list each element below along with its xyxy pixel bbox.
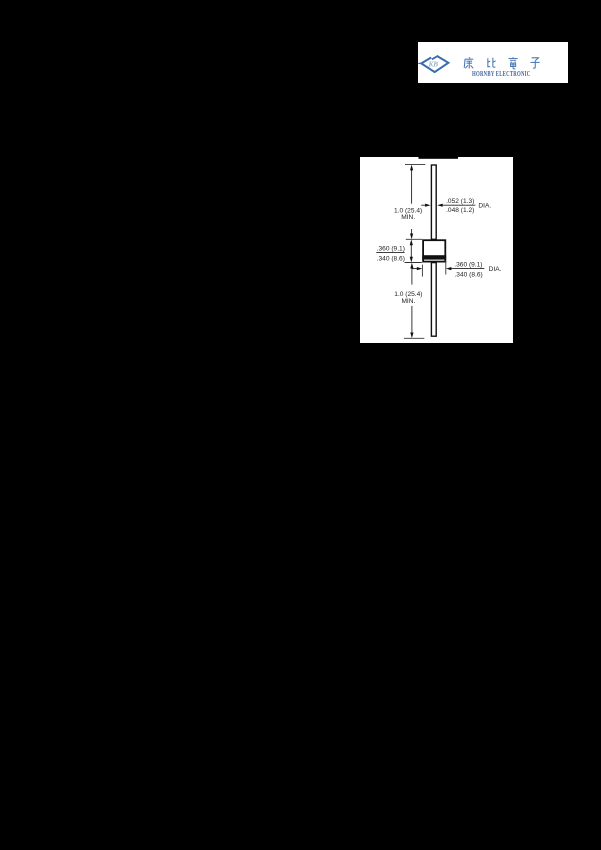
diode body	[423, 240, 445, 261]
package drawing panel (white box)	[360, 157, 513, 343]
logo panel (white box top right)	[418, 42, 569, 83]
svg-text:DIA.: DIA.	[478, 202, 491, 209]
svg-text:.360 (9.1): .360 (9.1)	[377, 245, 405, 252]
extension line at lead bottom	[404, 337, 424, 339]
svg-text:MIN.: MIN.	[401, 297, 415, 304]
svg-text:.052 (1.3): .052 (1.3)	[446, 198, 474, 205]
body diameter arrows	[412, 267, 485, 270]
black bar at panel top	[419, 157, 459, 159]
lead upper segment	[431, 165, 436, 239]
svg-text:KB: KB	[427, 61, 438, 69]
extension line at lead top	[405, 163, 425, 165]
lead diameter arrows	[421, 203, 475, 206]
svg-text:.048 (1.2): .048 (1.2)	[446, 206, 474, 213]
extension lines below body	[421, 264, 423, 276]
hanzi zi	[530, 58, 539, 68]
upper dimension line 1.0 MIN	[410, 164, 413, 239]
logo diamond notch stroke	[431, 56, 437, 60]
extension line body bottom	[405, 261, 422, 263]
cathode band	[422, 255, 446, 259]
svg-text:MIN.: MIN.	[401, 214, 415, 221]
svg-text:.340 (8.6): .340 (8.6)	[377, 255, 405, 262]
hanzi dian	[508, 57, 517, 69]
body height dimension line	[410, 239, 413, 262]
logo left dash	[418, 62, 421, 64]
logo diamond outline	[421, 56, 448, 72]
svg-text:HORNBY ELECTRONIC: HORNBY ELECTRONIC	[472, 71, 530, 78]
hanzi kang	[464, 57, 473, 68]
svg-text:.360 (9.1): .360 (9.1)	[454, 261, 482, 268]
lower dimension line 1.0 MIN	[410, 262, 413, 338]
hanzi bi	[487, 58, 495, 68]
svg-text:.340 (8.6): .340 (8.6)	[454, 271, 482, 278]
svg-text:DIA.: DIA.	[489, 266, 502, 273]
extension line body top	[406, 238, 422, 240]
lead lower segment	[431, 262, 436, 336]
